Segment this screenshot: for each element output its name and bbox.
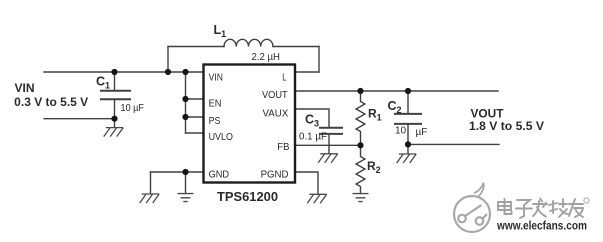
watermark text dian <box>498 199 512 214</box>
svg-text:L1: L1 <box>214 23 227 39</box>
wire EN/PS/UVLO vertical bus <box>185 72 187 133</box>
wire VAUX stub <box>295 109 329 127</box>
svg-text:UVLO: UVLO <box>209 131 233 143</box>
resistor R1 <box>356 91 365 145</box>
wire top rail right of L1 <box>273 46 319 48</box>
node EN <box>182 96 188 102</box>
svg-text:L: L <box>282 71 286 83</box>
watermark registered mark <box>584 198 589 203</box>
wire PS stub <box>186 116 204 118</box>
chassis ground C3 <box>318 154 338 163</box>
svg-text:TPS61200: TPS61200 <box>217 190 278 204</box>
svg-text:FB: FB <box>277 141 289 153</box>
wire EN stub <box>186 98 204 100</box>
svg-text:VAUX: VAUX <box>263 107 289 119</box>
svg-text:10: 10 <box>395 126 407 137</box>
wire C2 ground stub <box>407 144 409 153</box>
svg-text:GND: GND <box>209 168 230 180</box>
svg-text:VOUT: VOUT <box>262 89 288 101</box>
wire UVLO stub <box>186 132 204 134</box>
wire L pin stub <box>295 71 319 73</box>
svg-text:1.8 V to 5.5 V: 1.8 V to 5.5 V <box>469 121 544 133</box>
wire VOUT rail <box>295 90 498 92</box>
node FB divider <box>357 142 363 148</box>
watermark text you <box>569 199 583 217</box>
capacitor C2 <box>395 91 421 144</box>
chassis ground PGND <box>307 194 327 203</box>
earth ground R2 <box>353 194 369 202</box>
chassis ground C1 <box>104 128 124 137</box>
earth ground GND <box>178 194 194 202</box>
watermark text fa <box>533 199 547 217</box>
wire PGND pin <box>295 172 318 194</box>
wire top rail left of L1 <box>168 46 224 48</box>
node inductor tap <box>165 69 171 75</box>
chassis ground GND left <box>140 194 160 203</box>
wire GND pin <box>151 171 204 173</box>
wire drop to L pin <box>318 47 320 73</box>
watermark text shao <box>549 199 568 217</box>
op-amp U1 TPS61200 body <box>204 65 296 183</box>
svg-text:PGND: PGND <box>261 168 289 180</box>
svg-text:2.2 µH: 2.2 µH <box>252 52 281 63</box>
wire VOUT bottom return <box>408 143 499 145</box>
svg-text:µF: µF <box>416 127 428 138</box>
svg-text:C1: C1 <box>96 75 110 91</box>
wire vertical to inductor rail <box>167 47 169 73</box>
node C1 top <box>111 69 117 75</box>
wire GND left drop <box>150 172 152 194</box>
svg-text:PS: PS <box>209 115 221 127</box>
junction dots <box>111 69 411 175</box>
wire VIN bottom return <box>44 118 115 120</box>
node C1 bottom <box>111 116 117 122</box>
svg-text:VIN: VIN <box>209 71 223 83</box>
chassis ground C2 <box>397 154 417 163</box>
capacitor C3 <box>320 128 342 154</box>
svg-text:VIN: VIN <box>15 83 35 95</box>
capacitor C1 <box>101 72 130 119</box>
svg-text:R2: R2 <box>367 159 381 175</box>
svg-text:C2: C2 <box>388 99 402 115</box>
resistor R2 <box>356 145 365 193</box>
node C2 top <box>405 88 411 94</box>
node GND <box>182 169 188 175</box>
node VIN pin <box>182 69 188 75</box>
svg-text:VOUT: VOUT <box>471 108 504 120</box>
svg-text:C3: C3 <box>305 113 319 129</box>
svg-text:EN: EN <box>209 97 222 109</box>
watermark logo elecfans <box>454 183 490 232</box>
node PS <box>182 114 188 120</box>
svg-text:10 µF: 10 µF <box>121 103 145 114</box>
watermark text zi <box>516 200 532 218</box>
wire GND earth stub <box>185 172 187 193</box>
wire C1 ground stub <box>114 119 116 128</box>
node R1 top <box>357 88 363 94</box>
svg-text:0.1 µF: 0.1 µF <box>299 132 327 143</box>
inductor L1 <box>224 39 273 46</box>
wire FB <box>295 144 361 146</box>
svg-text:0.3 V to 5.5 V: 0.3 V to 5.5 V <box>14 97 88 109</box>
wire VIN input rail <box>44 71 203 73</box>
svg-text:www.elecfans.com: www.elecfans.com <box>496 221 587 233</box>
node C2 bottom <box>405 141 411 147</box>
svg-text:R1: R1 <box>368 107 382 123</box>
